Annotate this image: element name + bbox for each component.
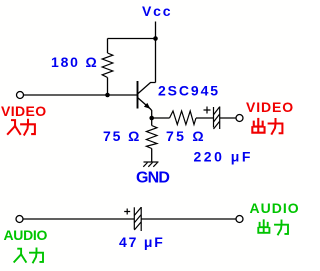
svg-text:GND: GND [136,170,169,187]
svg-text:2SC945: 2SC945 [158,83,220,99]
svg-text:AUDIO: AUDIO [250,200,300,216]
wire R2 to C1 [196,117,214,119]
transistor emitter branch [138,98,152,119]
wire video input to base [24,94,138,96]
svg-text:47 μF: 47 μF [119,234,165,250]
svg-text:75 Ω: 75 Ω [103,128,141,144]
svg-text:VIDEO: VIDEO [1,103,47,119]
svg-text:180 Ω: 180 Ω [51,54,98,70]
svg-text:75 Ω: 75 Ω [166,128,206,144]
transistor Q1 2SC945 base bar [137,81,139,109]
label kanji shutsuryoku (output) red [252,119,282,134]
junction dot emitter node [149,116,154,121]
label kanji shutsuryoku (output) green [258,220,288,234]
plus sign C1 [204,107,211,114]
svg-text:Vcc: Vcc [142,3,172,19]
ground symbol [143,162,158,167]
label kanji nyuuryoku (input) green [14,248,43,262]
capacitor C1 220uF [214,107,220,130]
terminal video input [17,92,24,99]
wire audio input to C2 [23,218,134,220]
svg-text:AUDIO: AUDIO [4,227,48,243]
terminal audio input [16,216,23,223]
transistor collector branch [138,83,156,95]
wire R3 to ground [151,149,153,163]
wire emitter node down to R3 [151,118,153,126]
svg-text:220 μF: 220 μF [194,149,253,165]
junction dot Vcc/180ohm [153,36,158,41]
wire 180ohm bottom lead [107,78,109,96]
wire 180ohm top lead [107,39,109,54]
terminal video output [236,115,243,122]
wire emitter node to R2 [152,117,170,119]
terminal audio output [236,216,243,223]
svg-text:VIDEO: VIDEO [246,99,294,115]
wire Vcc vertical (collector supply) [155,22,157,83]
wire C1 to video out [220,117,236,119]
wire C2 to audio out [141,218,236,220]
junction dot base node [105,93,110,98]
resistor R1 180ohm [102,53,113,78]
capacitor C2 47uF [134,207,141,231]
transistor emitter arrowhead [144,103,151,109]
resistor R3 75ohm vertical [146,126,157,149]
label kanji nyuuryoku (input) red [8,120,35,135]
plus sign C2 [124,209,130,215]
resistor R2 75ohm horizontal [170,111,197,125]
wire top horizontal to 180ohm [108,38,156,40]
